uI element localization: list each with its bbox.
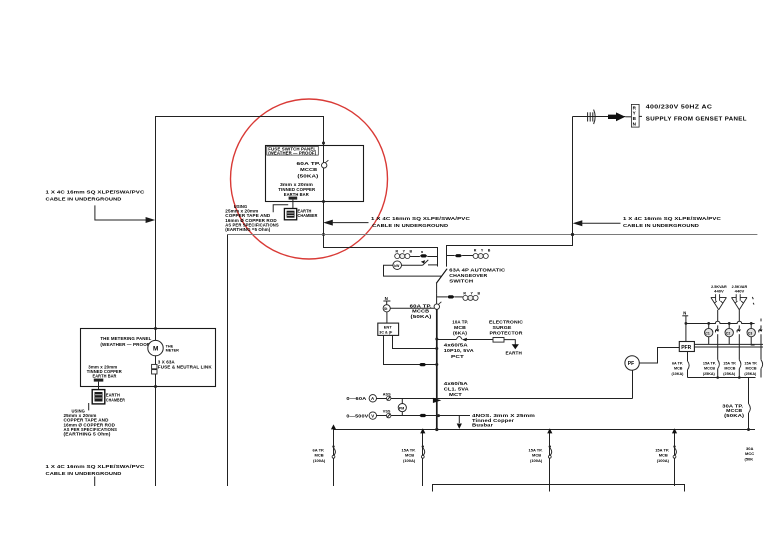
- svg-text:(50K: (50K: [745, 456, 754, 461]
- svg-text:1 X 4C 16mm SQ XLPE/SWA/PVC: 1 X 4C 16mm SQ XLPE/SWA/PVC: [46, 190, 146, 195]
- wire kW to blade: [402, 264, 423, 266]
- breaker b2: [422, 445, 424, 447]
- svg-text:kW: kW: [394, 264, 400, 268]
- svg-text:(WEATHER — PROOF): (WEATHER — PROOF): [268, 151, 316, 156]
- arrow into main line: [433, 398, 441, 403]
- earth bar symbol (metering): [94, 379, 104, 382]
- svg-text:R Y B: R Y B: [396, 249, 414, 253]
- svg-text:CHAMBER: CHAMBER: [106, 397, 125, 402]
- svg-text:4x60/5A: 4x60/5A: [444, 381, 469, 386]
- wire top U: metering riser to fuse panel riser: [156, 117, 324, 329]
- surge protector element: [493, 338, 504, 343]
- 30A MCCB feeder drop: [748, 378, 750, 404]
- note text USING (metering earthing): [64, 409, 118, 437]
- wire PF tap: [632, 370, 634, 398]
- fuse switch panel label box: [267, 146, 319, 155]
- svg-text:PROTECTOR: PROTECTOR: [490, 330, 524, 335]
- svg-text:63A 4P AUTOMATIC: 63A 4P AUTOMATIC: [449, 268, 506, 273]
- wire neutral to main: [390, 307, 434, 309]
- svg-text:(25KA): (25KA): [703, 372, 716, 376]
- svg-text:1 X 4C 16mm SQ XLPE/SWA/PVC: 1 X 4C 16mm SQ XLPE/SWA/PVC: [623, 216, 722, 221]
- ENT wire upper tap: [393, 335, 437, 348]
- svg-text:C1: C1: [705, 331, 709, 335]
- svg-text:Y: Y: [633, 111, 636, 116]
- capacitor C2 delta: [732, 294, 748, 310]
- svg-text:THE METERING PANEL: THE METERING PANEL: [100, 336, 151, 341]
- svg-text:(50KA): (50KA): [297, 173, 319, 178]
- wire left sub-feeder drop: [227, 235, 229, 487]
- svg-text:SURGE: SURGE: [493, 325, 512, 330]
- changeover left bus from mains: [324, 235, 438, 267]
- ENT box: [378, 323, 399, 335]
- branch 3 riser: [549, 430, 551, 492]
- node fuse riser / rail A: [322, 233, 325, 236]
- svg-text:MCB: MCB: [315, 452, 324, 457]
- node metering top: [154, 327, 157, 330]
- svg-text:(6KA): (6KA): [453, 330, 467, 335]
- cable label right (to genset riser): [573, 220, 583, 226]
- svg-text:MCB: MCB: [532, 452, 541, 457]
- svg-text:3C & (F: 3C & (F: [379, 331, 393, 335]
- arrow supply direction: [608, 112, 625, 121]
- svg-text:R Y B: R Y B: [463, 292, 481, 296]
- svg-text:N: N: [683, 310, 686, 315]
- svg-text:MCCB: MCCB: [412, 309, 430, 314]
- svg-text:60A TP.: 60A TP.: [297, 161, 321, 166]
- svg-text:C2: C2: [726, 331, 730, 335]
- capacitor group bus: [688, 377, 756, 379]
- svg-text:(EARTHING =5 Ohm): (EARTHING =5 Ohm): [225, 227, 271, 232]
- breaker 30A TP MCCB: [749, 404, 751, 413]
- meter circle (neutral): [383, 305, 390, 312]
- wire ammeter line: [377, 398, 633, 400]
- wire voltmeter line: [377, 415, 471, 417]
- busbar label leader: [458, 416, 460, 423]
- breaker b4: [673, 445, 675, 447]
- neutral bus with hops: [686, 321, 755, 323]
- sub panel outline: [433, 485, 685, 492]
- svg-text:PFR: PFR: [681, 345, 691, 351]
- svg-text:MCCB: MCCB: [300, 167, 318, 172]
- svg-text:(25KA): (25KA): [723, 372, 736, 376]
- svg-text:MCCB: MCCB: [724, 366, 735, 370]
- breaker Q1 60A TP MCCB in fuse panel: [322, 163, 327, 168]
- capacitor branch 3: [760, 319, 762, 322]
- cable slash marks: [587, 112, 589, 121]
- svg-text:CABLE IN UNDERGROUND: CABLE IN UNDERGROUND: [46, 197, 123, 202]
- svg-text:60A TP.: 60A TP.: [410, 303, 432, 308]
- changeover output riser: [436, 283, 438, 294]
- svg-text:PF: PF: [628, 361, 634, 367]
- breaker cap1 15A MCCB: [718, 360, 720, 369]
- svg-text:V: V: [371, 414, 374, 419]
- svg-text:6A TP.: 6A TP.: [672, 361, 683, 365]
- wire PF to PFR: [639, 348, 679, 364]
- node on fuse panel riser: [322, 142, 325, 145]
- svg-text:ASS: ASS: [383, 392, 391, 396]
- svg-text:10A TP.: 10A TP.: [452, 320, 468, 325]
- svg-text:2.5KVAR: 2.5KVAR: [711, 285, 727, 289]
- breaker cap3 15A MCCB: [761, 360, 763, 369]
- wire fuse panel riser inside panel: [323, 146, 325, 163]
- svg-text:(25KA): (25KA): [744, 372, 757, 376]
- svg-text:SUPPLY FROM GENSET PANEL: SUPPLY FROM GENSET PANEL: [646, 116, 747, 122]
- svg-text:15A TP.: 15A TP.: [723, 361, 736, 365]
- svg-text:2.5KVAR: 2.5KVAR: [732, 285, 748, 289]
- meter M: [148, 340, 163, 355]
- svg-text:(50KA): (50KA): [724, 413, 745, 418]
- node neutral bus: [685, 322, 688, 325]
- svg-text:MCB: MCB: [659, 452, 668, 457]
- svg-text:(100A): (100A): [313, 458, 326, 463]
- svg-text:0—60A: 0—60A: [346, 396, 367, 401]
- svg-text:440V: 440V: [714, 290, 724, 294]
- breaker b3: [549, 445, 551, 447]
- earth arrow: [512, 344, 519, 349]
- genset riser and feed to changeover: [447, 117, 573, 267]
- svg-text:C3: C3: [748, 331, 752, 335]
- svg-text:CABLE IN UNDERGROUND: CABLE IN UNDERGROUND: [46, 471, 123, 476]
- fuse switch panel enclosure: [266, 146, 364, 202]
- earth chamber (metering): [92, 390, 105, 404]
- wire phase row (left): [410, 256, 420, 258]
- capacitor branch 2: [738, 310, 740, 322]
- PFR branch breaker 6A: [687, 352, 689, 362]
- svg-text:(EARTHING 5 Ohm): (EARTHING 5 Ohm): [64, 432, 112, 437]
- svg-text:VSS: VSS: [383, 409, 391, 413]
- wire metering riser: [155, 329, 157, 487]
- node coil 2: [728, 322, 731, 325]
- svg-text:(100A): (100A): [530, 458, 543, 463]
- breaker b1: [332, 445, 334, 447]
- busbar: [334, 429, 755, 431]
- svg-text:PCT: PCT: [451, 354, 464, 359]
- svg-text:MCC: MCC: [745, 451, 754, 456]
- svg-text:EARTH: EARTH: [506, 351, 522, 356]
- metering panel enclosure: [81, 329, 216, 387]
- contactor coil C1: [708, 323, 710, 328]
- capacitor branch 1: [717, 310, 719, 322]
- node surge branch: [435, 338, 438, 341]
- leader bracket to earth chamber (panel): [273, 205, 288, 213]
- PFR control bus double line: [694, 343, 763, 345]
- svg-text:4x60/5A: 4x60/5A: [444, 343, 469, 348]
- svg-text:M: M: [421, 250, 423, 254]
- branch 2 riser: [422, 430, 424, 487]
- ferrule (output): [447, 295, 454, 298]
- node fuse riser / panel bottom: [322, 200, 325, 203]
- fuse and neutral link symbol: [152, 364, 157, 368]
- contactor contact 2: [737, 329, 739, 333]
- meter PF: [625, 356, 639, 370]
- genset incoming line with cable marks: [573, 116, 626, 118]
- svg-text:(100A): (100A): [657, 458, 670, 463]
- ferrule (voltmeter line): [419, 414, 426, 417]
- phase circles (left): [395, 254, 400, 259]
- node coil 3: [750, 322, 753, 325]
- svg-text:MCB: MCB: [674, 366, 683, 370]
- rail A horizontal: [228, 234, 758, 236]
- svg-text:(100A): (100A): [403, 458, 416, 463]
- svg-text:(10KA): (10KA): [672, 372, 685, 376]
- svg-text:CHANGEOVER: CHANGEOVER: [449, 273, 488, 278]
- leader stub bottom-left: [94, 477, 96, 487]
- phase circles (right): [473, 254, 478, 259]
- node metering bottom: [154, 385, 157, 388]
- svg-text:M: M: [153, 345, 158, 352]
- leader top-left: [95, 205, 147, 220]
- neutral blade: [423, 260, 429, 265]
- svg-text:ENT: ENT: [384, 324, 393, 329]
- note text USING (panel earthing): [225, 204, 279, 232]
- svg-text:1 X 4C 16mm SQ XLPE/SWA/PVC: 1 X 4C 16mm SQ XLPE/SWA/PVC: [46, 464, 146, 469]
- node V line / main: [437, 414, 440, 417]
- ferrule (right): [455, 254, 462, 257]
- svg-text:400/230V 50HZ AC: 400/230V 50HZ AC: [646, 104, 713, 110]
- svg-text:PM: PM: [399, 406, 404, 410]
- wire N to PFR: [685, 316, 687, 342]
- svg-text:MCCB: MCCB: [746, 366, 757, 370]
- svg-text:EARTH BAR: EARTH BAR: [93, 374, 117, 379]
- ferrule (left): [420, 254, 427, 257]
- node genset / rail A: [571, 233, 574, 236]
- svg-text:EARTH BAR: EARTH BAR: [284, 192, 309, 197]
- earth rod wire: [88, 403, 90, 410]
- changeover right bus from genset: [447, 255, 455, 257]
- svg-text:440V: 440V: [735, 290, 745, 294]
- annotation red circle: [231, 99, 388, 259]
- svg-text:15A TP.: 15A TP.: [703, 361, 716, 365]
- node main feeder / busbar: [435, 428, 438, 431]
- svg-text:Busbar: Busbar: [472, 423, 493, 428]
- svg-text:10P10, 5VA: 10P10, 5VA: [444, 348, 475, 353]
- svg-text:ELECTRONIC: ELECTRONIC: [489, 320, 524, 325]
- voltmeter V: [369, 412, 376, 419]
- svg-text:METER: METER: [166, 349, 180, 353]
- main feeder line: [436, 309, 438, 430]
- wire kW return loop: [384, 265, 442, 276]
- svg-text:(50KA): (50KA): [411, 314, 433, 319]
- meter circle kW (neutral pole): [393, 261, 402, 270]
- branch 4 riser: [674, 430, 676, 487]
- PM meter: [401, 398, 403, 403]
- svg-text:0—500V: 0—500V: [346, 414, 368, 419]
- svg-text:SWITCH: SWITCH: [449, 278, 473, 283]
- breaker 10A TP MCB: [456, 336, 462, 339]
- svg-text:MCT: MCT: [449, 392, 462, 397]
- breaker Q2 60A TP MCCB: [434, 304, 439, 309]
- ammeter A: [369, 395, 376, 402]
- node coil 1: [707, 322, 710, 325]
- svg-text:CHAMBER: CHAMBER: [298, 213, 318, 218]
- svg-text:CABLE IN UNDERGROUND: CABLE IN UNDERGROUND: [623, 223, 700, 228]
- phase circles (output): [463, 295, 468, 300]
- changeover blade: [436, 269, 447, 284]
- capacitor C1 delta: [711, 294, 727, 310]
- svg-text:15A TP.: 15A TP.: [744, 361, 757, 365]
- ENT terminal stub: [386, 312, 388, 323]
- output phase row: [437, 296, 448, 298]
- svg-text:1 X 4C 16mm SQ XLPE/SWA/PVC: 1 X 4C 16mm SQ XLPE/SWA/PVC: [371, 216, 471, 221]
- svg-text:(WEATHER — PROOF): (WEATHER — PROOF): [100, 342, 151, 347]
- branch 1 riser: [333, 430, 336, 487]
- surge branch wire: [437, 339, 457, 341]
- svg-text:MCB: MCB: [405, 452, 414, 457]
- svg-text:FUSE & NEUTRAL LINK: FUSE & NEUTRAL LINK: [158, 365, 213, 370]
- contactor contact 3: [759, 329, 761, 333]
- svg-text:CL1. 5VA: CL1. 5VA: [444, 386, 470, 391]
- svg-text:CABLE IN UNDERGROUND: CABLE IN UNDERGROUND: [372, 223, 449, 228]
- svg-text:R Y B: R Y B: [474, 249, 492, 253]
- svg-text:N: N: [385, 296, 388, 301]
- earth bar symbol (panel): [289, 197, 298, 200]
- ENT wire lower tap: [384, 335, 437, 364]
- svg-text:MCCB: MCCB: [704, 366, 715, 370]
- contactor coil C2: [728, 323, 730, 328]
- cable label mid (to fuse panel riser): [323, 220, 333, 226]
- svg-text:MCB: MCB: [454, 325, 467, 330]
- relay PFR: [679, 342, 694, 352]
- contactor contact 1: [716, 329, 718, 333]
- capacitor bank 3 (edge) marks: [752, 297, 753, 299]
- earth chamber (panel): [284, 209, 296, 220]
- contactor coil C3: [750, 323, 752, 328]
- phase box R Y B N: [631, 104, 639, 127]
- breaker cap2 15A MCCB: [739, 360, 741, 369]
